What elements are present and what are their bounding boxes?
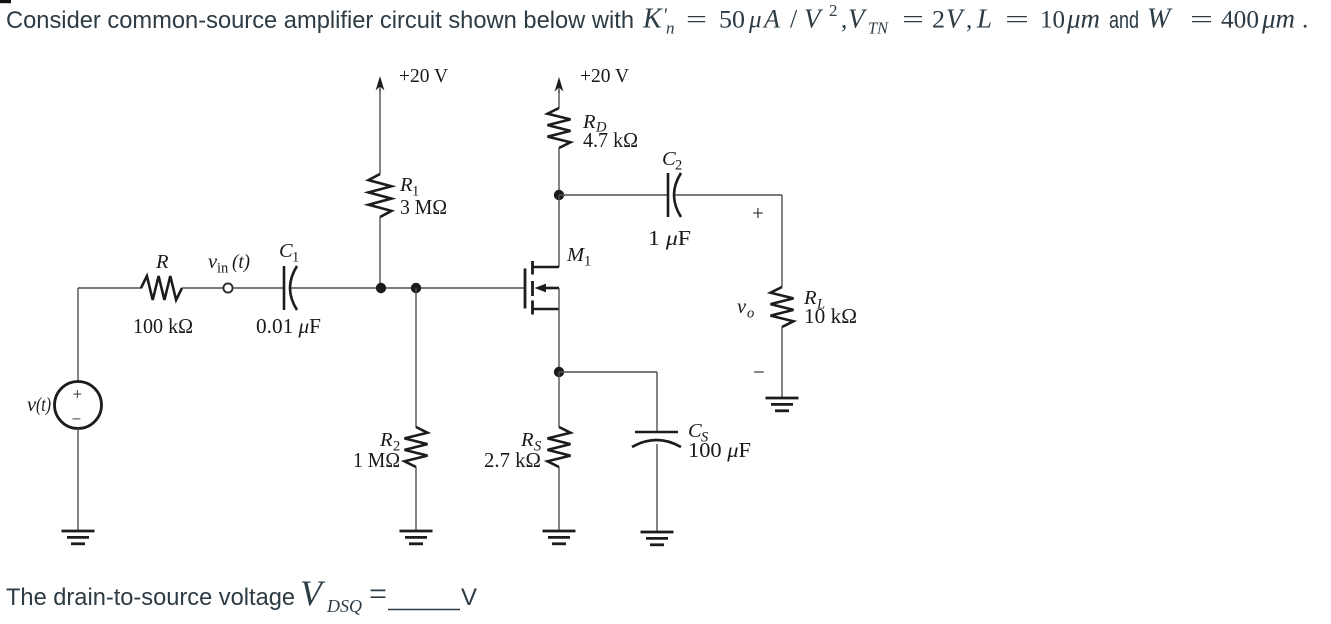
- wire C2 to RL: [675, 194, 782, 196]
- svg-text:2.7 kΩ: 2.7 kΩ: [484, 448, 541, 472]
- wire RS to ground: [558, 467, 560, 531]
- ground (source): [62, 531, 95, 544]
- resistor R1: [369, 174, 392, 217]
- wire drain node to MOSFET drain: [558, 195, 560, 267]
- svg-text:DSQ: DSQ: [326, 596, 362, 616]
- svg-text:1: 1: [584, 254, 591, 270]
- svg-text:+20 V: +20 V: [399, 66, 448, 87]
- svg-text:K: K: [642, 4, 663, 35]
- svg-text:3 MΩ: 3 MΩ: [400, 195, 447, 219]
- svg-text:1 μF: 1 μF: [648, 226, 691, 250]
- svg-text:+: +: [73, 385, 83, 404]
- svg-text:=: =: [902, 7, 924, 34]
- wire from source to main node: [77, 288, 79, 382]
- ground (RL): [766, 398, 799, 411]
- node vin(t) open circle: [223, 283, 232, 292]
- svg-text:and: and: [1109, 7, 1139, 34]
- wire source node to CS: [559, 371, 657, 373]
- svg-text:μm: μm: [1261, 4, 1295, 34]
- svg-text:V: V: [946, 4, 966, 34]
- wire R to vin node: [182, 287, 223, 289]
- wire node to R2: [415, 288, 417, 427]
- svg-text:R: R: [399, 174, 413, 196]
- svg-text:0.01 μF: 0.01 μF: [256, 314, 321, 338]
- svg-text:2: 2: [829, 1, 838, 20]
- capacitor CS: [635, 431, 678, 434]
- svg-text:W: W: [1147, 4, 1173, 35]
- svg-text:=: =: [369, 576, 387, 613]
- transistor M1 source stub: [533, 308, 559, 311]
- svg-text:100 μF: 100 μF: [688, 438, 751, 462]
- voltage source v(t): [55, 382, 102, 429]
- svg-text:(t): (t): [232, 251, 250, 273]
- svg-text:−: −: [72, 410, 82, 429]
- wire RL to ground: [781, 327, 783, 398]
- svg-text:V: V: [848, 4, 868, 34]
- svg-text:M: M: [566, 244, 586, 266]
- resistor RS: [548, 427, 571, 467]
- junction dot (R1 node): [376, 283, 386, 293]
- svg-text:−: −: [753, 360, 765, 384]
- transistor M1 source channel bar: [531, 301, 534, 315]
- transistor M1 body line with arrow: [544, 287, 559, 290]
- wire C1 to gate: [291, 287, 524, 289]
- wire to resistor R: [78, 287, 142, 289]
- wire arrow to R1: [379, 89, 381, 174]
- +20V supply arrow (RD): [558, 81, 560, 93]
- svg-text:n: n: [666, 19, 675, 38]
- svg-text:1 MΩ: 1 MΩ: [353, 448, 400, 472]
- wire R2 to ground: [415, 467, 417, 531]
- svg-text:μ: μ: [748, 7, 762, 34]
- svg-text:1: 1: [292, 250, 299, 266]
- svg-text:100 kΩ: 100 kΩ: [133, 314, 193, 338]
- capacitor C2: [667, 173, 670, 217]
- transistor M1 body channel bar: [531, 281, 534, 296]
- wire source node to RS: [558, 372, 560, 427]
- svg-text:o: o: [747, 306, 754, 322]
- svg-text:=: =: [686, 7, 707, 34]
- wire vin to C1: [233, 287, 283, 289]
- svg-text:A: A: [762, 5, 780, 34]
- svg-text:2: 2: [932, 7, 945, 34]
- transistor M1 drain stub: [533, 266, 559, 269]
- svg-text:The drain-to-source voltage: The drain-to-source voltage: [6, 584, 295, 611]
- +20V supply arrow (R1): [379, 80, 381, 92]
- junction dot (drain node): [554, 190, 564, 200]
- wire drain node to C2: [559, 194, 667, 196]
- svg-text:50: 50: [719, 7, 745, 34]
- svg-text:V: V: [804, 4, 824, 34]
- wire arrow to RD: [558, 90, 560, 108]
- svg-text:4.7 kΩ: 4.7 kΩ: [583, 128, 638, 152]
- svg-text:v: v: [737, 296, 747, 318]
- ground (R2): [400, 531, 433, 544]
- svg-text:L: L: [976, 4, 992, 34]
- svg-text:2: 2: [675, 158, 682, 174]
- svg-text:+: +: [752, 201, 764, 225]
- junction dot (source node): [554, 367, 564, 377]
- svg-text:,: ,: [966, 7, 972, 34]
- svg-text:=: =: [1190, 7, 1213, 34]
- svg-text:.: .: [1302, 7, 1308, 34]
- svg-text:μm: μm: [1066, 4, 1100, 34]
- svg-text:+20 V: +20 V: [580, 66, 629, 87]
- svg-text:,: ,: [841, 7, 847, 34]
- ground (RS): [543, 531, 576, 544]
- resistor RL: [771, 287, 794, 327]
- svg-text:10 kΩ: 10 kΩ: [804, 304, 857, 328]
- svg-text:400: 400: [1221, 7, 1259, 34]
- wire source to ground: [77, 429, 79, 532]
- capacitor C1: [283, 266, 286, 310]
- svg-text:(t): (t): [36, 394, 51, 416]
- wire CS to ground: [656, 444, 658, 532]
- wire R1 to node: [379, 217, 381, 288]
- svg-text:Consider common-source amplifi: Consider common-source amplifier circuit…: [6, 7, 634, 34]
- svg-text:V: V: [461, 584, 477, 611]
- page corner tick mark: [0, 0, 11, 3]
- svg-text:/: /: [790, 5, 798, 34]
- junction dot (R2 node): [411, 283, 421, 293]
- svg-text:V: V: [300, 573, 326, 613]
- transistor M1 gate bar: [524, 269, 527, 309]
- svg-text:R: R: [155, 251, 169, 273]
- answer blank underline: [388, 609, 460, 611]
- svg-text:TN: TN: [868, 19, 890, 38]
- wire M1 source/body down to source node: [558, 288, 560, 372]
- transistor M1 drain channel bar: [531, 261, 534, 275]
- resistor R2: [405, 427, 428, 467]
- svg-text:C: C: [279, 240, 293, 262]
- resistor R: [141, 276, 182, 300]
- svg-text:in: in: [217, 261, 229, 277]
- wire RD to drain node: [558, 148, 560, 195]
- svg-text:=: =: [1005, 7, 1029, 34]
- svg-text:C: C: [662, 148, 676, 170]
- resistor RD: [548, 108, 571, 148]
- svg-text:10: 10: [1040, 7, 1065, 34]
- ground (CS): [641, 532, 674, 545]
